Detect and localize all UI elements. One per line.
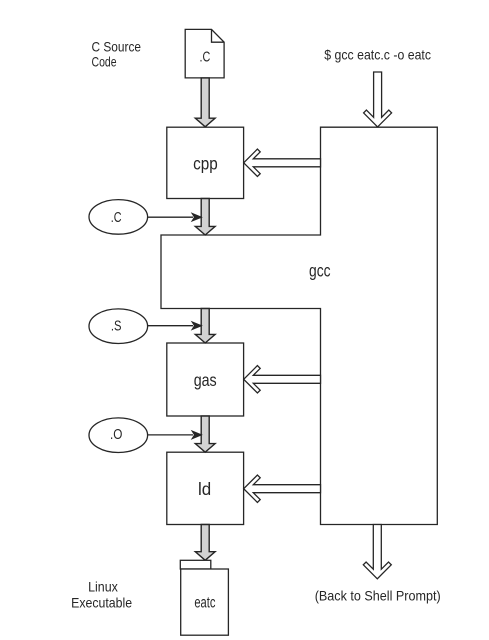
thin arrow: .O into pipeline	[148, 431, 202, 439]
svg-text:.S: .S	[111, 318, 122, 334]
document icon .c	[185, 29, 224, 78]
svg-text:.C: .C	[111, 210, 122, 226]
svg-text:.C: .C	[200, 50, 211, 66]
gcc shape (union of tower and band)	[161, 127, 437, 524]
svg-text:gcc: gcc	[309, 260, 331, 280]
hollow arrow: shell command into gcc	[364, 72, 392, 127]
gray arrow: ld to eatc	[195, 525, 215, 561]
gray arrow: cpp to gcc band	[195, 199, 215, 236]
svg-text:ld: ld	[198, 479, 211, 499]
hollow arrow: gcc to ld	[244, 475, 321, 502]
gray arrow: gcc band to gas	[195, 309, 215, 344]
hollow arrow: gcc to shell prompt	[363, 525, 391, 579]
ellipse .S	[89, 309, 148, 344]
svg-text:cpp: cpp	[193, 153, 218, 173]
thin arrow: .C into pipeline	[148, 213, 202, 221]
svg-text:.O: .O	[110, 427, 122, 443]
box ld	[167, 452, 244, 524]
svg-text:Executable: Executable	[71, 595, 132, 610]
svg-text:Code: Code	[92, 55, 117, 70]
svg-text:gas: gas	[194, 370, 217, 390]
svg-text:C Source: C Source	[92, 39, 142, 54]
hollow arrow: gcc to cpp	[244, 149, 321, 176]
svg-text:$ gcc eatc.c -o eatc: $ gcc eatc.c -o eatc	[324, 47, 431, 62]
eatc executable icon	[180, 560, 228, 635]
svg-text:Linux: Linux	[88, 580, 118, 595]
ellipse .C	[89, 200, 148, 235]
gray arrow: gas to ld	[195, 416, 215, 452]
box cpp	[167, 127, 244, 198]
hollow arrow: gcc to gas	[244, 366, 321, 393]
gray arrow: .c file to cpp	[195, 78, 215, 127]
svg-text:eatc: eatc	[194, 594, 215, 611]
svg-text:(Back to Shell Prompt): (Back to Shell Prompt)	[315, 589, 441, 604]
thin arrow: .S into pipeline	[148, 322, 202, 330]
box gas	[167, 343, 244, 416]
ellipse .O	[89, 418, 148, 453]
